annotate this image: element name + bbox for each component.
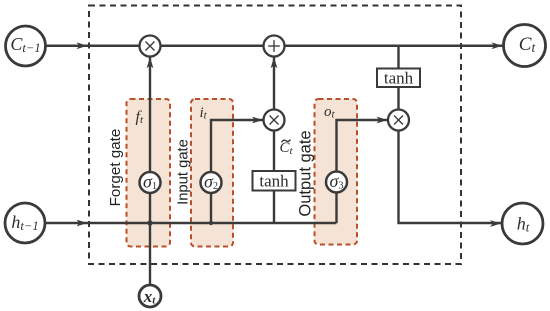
svg-text:tanh: tanh bbox=[259, 172, 289, 191]
svg-text:tanh: tanh bbox=[384, 69, 414, 88]
svg-text:Input gate: Input gate bbox=[176, 139, 192, 205]
svg-text:Output gate: Output gate bbox=[297, 130, 315, 216]
svg-text:Ct: Ct bbox=[280, 140, 294, 157]
svg-text:Forget gate: Forget gate bbox=[107, 129, 124, 207]
